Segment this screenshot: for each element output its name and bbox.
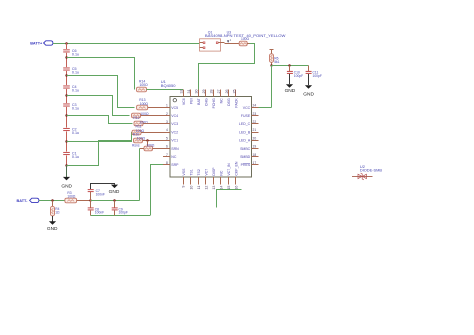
svg-text:23: 23: [253, 112, 257, 116]
svg-text:DSG: DSG: [227, 98, 231, 106]
svg-text:17: 17: [253, 161, 257, 165]
pin 13 DISP: [213, 177, 215, 184]
resistor R7 sense: [144, 146, 153, 151]
svg-text:GND: GND: [61, 183, 72, 189]
svg-text:0.1u: 0.1u: [72, 106, 79, 110]
wire VCC rail: [272, 65, 309, 67]
resistor R11: [134, 121, 143, 126]
svg-text:VC7_IN: VC7_IN: [227, 163, 231, 176]
ground R4: [49, 221, 56, 225]
pin 28 PCHG: [213, 90, 215, 97]
wire tap to R10: [67, 133, 133, 142]
svg-text:PRES: PRES: [241, 163, 251, 167]
ground C11: [305, 85, 312, 89]
capacitor C7: [90, 192, 92, 200]
pin 9 VSS: [183, 177, 185, 184]
svg-text:21: 21: [253, 128, 257, 132]
svg-text:NC: NC: [220, 170, 224, 176]
wire R5 to BAT pin: [199, 44, 255, 92]
svg-text:20: 20: [253, 136, 257, 140]
junction tap: [65, 114, 67, 116]
ground C7: [111, 185, 118, 189]
capacitor C1: [63, 152, 70, 156]
svg-text:19: 19: [253, 145, 257, 149]
svg-text:0.1u: 0.1u: [72, 131, 79, 135]
pin 10 TS1: [190, 177, 192, 184]
op-amp U1 BQ4050: [170, 97, 252, 178]
svg-text:10: 10: [189, 186, 193, 190]
pin 17 PRES: [252, 164, 259, 166]
pin 29 CHG: [205, 90, 207, 97]
resistor R13: [137, 105, 148, 110]
pin 19 SMBC: [252, 148, 259, 150]
svg-text:VC2: VC2: [171, 130, 178, 134]
pin 11 TS2: [198, 177, 200, 184]
capacitor C9: [114, 200, 116, 207]
svg-text:NC: NC: [171, 155, 177, 159]
svg-text:VC6: VC6: [182, 98, 186, 105]
svg-text:11: 11: [197, 186, 201, 190]
resistor R5: [225, 43, 240, 45]
svg-text:100Ω: 100Ω: [140, 102, 149, 106]
wire SRN rail riser: [139, 149, 141, 201]
resistor R4: [52, 200, 54, 206]
svg-text:0.1u: 0.1u: [72, 70, 79, 74]
svg-text:18: 18: [253, 153, 257, 157]
ground cell chain: [66, 166, 68, 177]
svg-text:PACK: PACK: [235, 98, 239, 108]
svg-text:0.1u: 0.1u: [72, 52, 79, 56]
pin 8 SRP: [163, 164, 170, 166]
svg-text:SRP: SRP: [171, 163, 179, 167]
pin 4 VC2: [163, 132, 170, 134]
svg-text:TS2: TS2: [197, 169, 201, 175]
svg-text:32: 32: [180, 90, 184, 94]
pin 32 VC6: [183, 90, 185, 97]
svg-text:30: 30: [195, 90, 199, 94]
svg-text:BATT-: BATT-: [17, 199, 29, 203]
pin 27 NC: [220, 90, 222, 97]
svg-text:7: 7: [166, 153, 168, 157]
svg-text:VSS: VSS: [182, 168, 186, 176]
test point U3 pin 1: [227, 40, 229, 43]
svg-text:DISP: DISP: [212, 167, 216, 176]
svg-text:4: 4: [166, 128, 168, 132]
svg-text:LED_C: LED_C: [239, 122, 251, 126]
svg-text:BATT+: BATT+: [30, 42, 43, 46]
pin 21 LED_B: [252, 132, 259, 134]
svg-text:100pF: 100pF: [294, 74, 303, 78]
capacitor C10: [288, 64, 290, 66]
wire tap to R12: [67, 96, 130, 116]
svg-text:100Ω: 100Ω: [146, 144, 155, 148]
transistor Q1: [200, 39, 221, 51]
svg-text:12: 12: [204, 186, 208, 190]
svg-text:NC: NC: [220, 98, 224, 104]
svg-text:VC7: VC7: [204, 169, 208, 176]
svg-text:24: 24: [253, 104, 257, 108]
pin 7 NC: [163, 156, 170, 158]
svg-text:LED_A: LED_A: [239, 139, 251, 143]
junction tap: [65, 140, 67, 142]
resistor R12: [132, 113, 141, 118]
pin 30 BAT: [198, 90, 200, 97]
junction tap: [65, 94, 67, 96]
svg-text:GND: GND: [285, 88, 296, 94]
junction tap: [65, 74, 67, 76]
svg-text:27: 27: [217, 90, 221, 94]
svg-text:LED_B: LED_B: [239, 130, 251, 134]
svg-text:0.1u: 0.1u: [72, 155, 79, 159]
junction tap: [65, 164, 67, 166]
svg-text:CKP_EN: CKP_EN: [235, 161, 239, 175]
wire SRP sense: [150, 164, 163, 166]
junction tap: [65, 56, 67, 58]
svg-text:13: 13: [212, 186, 216, 190]
resistor R3: [65, 198, 77, 203]
svg-text:DIODE-SMB: DIODE-SMB: [360, 168, 382, 173]
pin 3 VC3: [163, 123, 170, 125]
ground C10: [286, 84, 293, 88]
svg-text:GND: GND: [109, 189, 120, 195]
svg-text:BAT: BAT: [197, 97, 201, 104]
svg-text:SRN: SRN: [171, 147, 179, 151]
svg-text:FUSE: FUSE: [241, 114, 251, 118]
wire tap to R11: [67, 116, 133, 124]
svg-text:VC3: VC3: [171, 122, 178, 126]
pin 24 VCC: [252, 107, 259, 109]
svg-text:GND: GND: [47, 226, 58, 232]
svg-text:5: 5: [166, 136, 168, 140]
svg-text:R11: R11: [136, 124, 142, 128]
pin 23 FUSE: [252, 115, 259, 117]
svg-text:VC1: VC1: [171, 139, 178, 143]
svg-text:GND: GND: [303, 92, 314, 98]
svg-text:100pF: 100pF: [313, 74, 322, 78]
svg-text:SMBD: SMBD: [240, 155, 251, 159]
capacitor C2: [63, 128, 70, 132]
svg-text:100Ω: 100Ω: [241, 37, 250, 41]
junction C9: [113, 199, 115, 201]
resistor R6: [271, 49, 273, 54]
svg-text:25: 25: [232, 90, 236, 94]
svg-text:VCC: VCC: [243, 106, 251, 110]
svg-text:PCHG: PCHG: [212, 98, 216, 108]
wire BATT- rail: [39, 200, 65, 202]
svg-text:6: 6: [166, 145, 168, 149]
junction C7: [89, 199, 91, 201]
svg-text:31: 31: [187, 90, 191, 94]
svg-text:PBI: PBI: [189, 98, 193, 104]
svg-text:VC4: VC4: [171, 114, 178, 118]
wire tap to R13: [67, 76, 135, 108]
capacitor C3: [63, 103, 70, 107]
svg-text:Rsns: Rsns: [132, 144, 140, 148]
junction R6 / VCC rail: [270, 64, 272, 66]
wire cell tap chain: [66, 43, 68, 166]
svg-text:100Ω: 100Ω: [140, 83, 149, 87]
wire tap to R9: [67, 141, 132, 166]
resistor R9: [134, 138, 143, 143]
wire bottom pins: [217, 190, 242, 208]
junction BATT+ / cell tap: [65, 42, 67, 44]
resistor R10: [132, 130, 141, 135]
pin 25 PACK: [235, 90, 237, 97]
svg-text:28: 28: [210, 90, 214, 94]
pin 6 SRN: [163, 148, 170, 150]
svg-text:29: 29: [202, 90, 206, 94]
capacitor C5: [63, 67, 70, 71]
svg-text:22: 22: [253, 120, 257, 124]
wire BATT+ rail: [53, 43, 200, 45]
svg-text:2: 2: [166, 112, 168, 116]
pin 18 SMBD: [252, 156, 259, 158]
svg-text:8: 8: [166, 161, 168, 165]
pin 5 VC1: [163, 140, 170, 142]
svg-text:9: 9: [182, 186, 186, 188]
svg-text:SMBC: SMBC: [240, 147, 251, 151]
svg-text:100pF: 100pF: [119, 211, 128, 215]
pin 26 DSG: [228, 90, 230, 97]
pin 2 VC4: [163, 115, 170, 117]
svg-text:100Ω: 100Ω: [67, 195, 76, 199]
pin 15 VC7_IN: [228, 177, 230, 184]
capacitor C8: [90, 200, 92, 207]
svg-text:TS1: TS1: [189, 169, 193, 175]
pin 20 LED_A: [252, 140, 259, 142]
capacitor C6: [63, 49, 70, 53]
wire rail to riser: [91, 200, 140, 202]
svg-text:CHG: CHG: [204, 98, 208, 106]
junction R4: [51, 199, 53, 201]
svg-text:1: 1: [166, 104, 168, 108]
svg-text:100nF: 100nF: [96, 192, 105, 196]
svg-text:26: 26: [225, 90, 229, 94]
svg-text:1Ω: 1Ω: [55, 211, 60, 215]
pin 1 VC5: [163, 107, 170, 109]
svg-text:100Ω: 100Ω: [137, 137, 146, 141]
svg-text:5k1: 5k1: [274, 60, 279, 64]
capacitor C11: [308, 66, 310, 71]
svg-text:BQ4050: BQ4050: [161, 83, 176, 88]
overline PRES: [243, 163, 250, 165]
svg-text:3: 3: [166, 120, 168, 124]
svg-text:100nF: 100nF: [95, 211, 104, 215]
capacitor C4: [63, 85, 70, 89]
pin 12 VC7: [205, 177, 207, 184]
pin 16 CKP_EN: [235, 177, 237, 184]
junction R9 sense tie: [146, 139, 148, 141]
wire tap to R14: [67, 58, 135, 90]
resistor R14: [137, 87, 147, 92]
pin 22 LED_C: [252, 123, 259, 125]
svg-text:0.1u: 0.1u: [72, 88, 79, 92]
svg-text:VC5: VC5: [171, 106, 178, 110]
pin 14 NC: [220, 177, 222, 184]
pin 31 PBI: [190, 90, 192, 97]
